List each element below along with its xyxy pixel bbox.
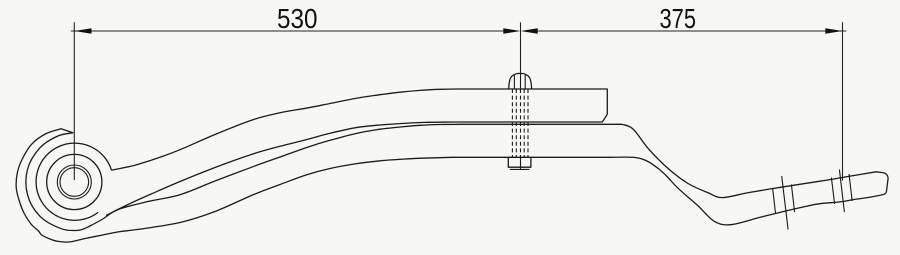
arrowhead right end of 375: [825, 28, 842, 34]
extension line left at eye center: [73, 22, 75, 180]
arrowhead right end of 530: [503, 28, 520, 34]
hole 2 edge mark left: [831, 178, 834, 205]
bushing inner circle: [60, 168, 89, 197]
svg-text:530: 530: [277, 3, 318, 34]
bolt shank hidden line far-right: [527, 89, 529, 157]
hole 2 centerline: [839, 170, 844, 213]
hole 2 edge mark right: [849, 174, 852, 201]
center bolt nut: [508, 157, 531, 167]
nut chamfer bottom line: [510, 168, 530, 170]
bushing outer circle: [57, 165, 91, 199]
hole 1 edge mark left: [773, 188, 776, 214]
bolt centerline through nut: [520, 157, 522, 170]
eye curl outer arc: [36, 143, 111, 220]
bolt head facet left: [513, 75, 515, 89]
bolt shank hidden line far-left: [511, 89, 513, 157]
bolt centerline hidden through leaves: [520, 89, 522, 157]
extension line right at rear hole: [842, 22, 844, 180]
arrowhead left end of 530: [74, 28, 91, 34]
bolt thread hidden line left: [515, 89, 517, 157]
eye bore circle: [47, 154, 102, 209]
bolt centerline through head: [520, 73, 522, 89]
extension line middle at center bolt: [520, 22, 522, 73]
wire dimension-line 530: [71, 30, 517, 32]
svg-text:375: 375: [660, 3, 697, 34]
bolt thread hidden line right: [523, 89, 525, 157]
hole 1 edge mark right: [791, 185, 794, 213]
wire dimension-line 375: [525, 30, 847, 32]
center bolt head: [509, 73, 532, 89]
leaf spring top leaf (eye leaf) outline: [106, 89, 607, 216]
arrowhead left end of 375: [521, 28, 538, 34]
bolt head facet right: [524, 75, 526, 89]
leaf spring main arm with military wrap outline: [16, 124, 888, 242]
hole 1 centerline: [782, 176, 788, 230]
